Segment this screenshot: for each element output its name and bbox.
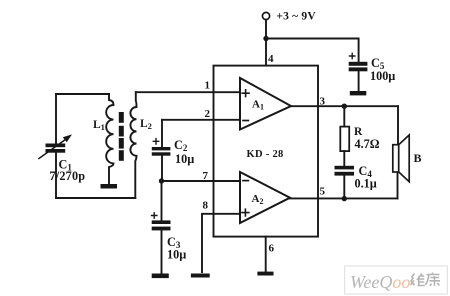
node C2 C3 pin7 junction bbox=[159, 178, 164, 183]
inductor L1 bbox=[93, 94, 114, 184]
svg-text:6: 6 bbox=[269, 243, 275, 255]
svg-text:2: 2 bbox=[205, 108, 211, 120]
svg-text:4.7Ω: 4.7Ω bbox=[355, 137, 380, 151]
node pin3 junction bbox=[342, 104, 347, 109]
supply terminal +3~9V bbox=[262, 11, 316, 23]
wire tuned loop left upper bbox=[55, 94, 57, 144]
svg-text:5: 5 bbox=[320, 186, 326, 198]
svg-text:L1: L1 bbox=[93, 119, 105, 132]
pin 1 wire bbox=[136, 80, 240, 93]
capacitor C4 0.1u bbox=[335, 164, 377, 199]
svg-text:4: 4 bbox=[268, 53, 274, 65]
IC U1 KD-28 bbox=[214, 66, 319, 237]
transformer core bbox=[119, 112, 124, 161]
inductor L2 bbox=[130, 92, 152, 198]
op-amp A2 bbox=[240, 172, 290, 223]
ground under pin 6 bbox=[257, 272, 273, 276]
wire tuned loop bottom bbox=[56, 197, 135, 199]
node supply junction bbox=[263, 36, 268, 41]
ground under pin 8 bbox=[191, 274, 210, 278]
ground under C5 bbox=[350, 91, 367, 95]
svg-text:7/270p: 7/270p bbox=[50, 169, 86, 183]
pin 3 wire bbox=[291, 96, 398, 145]
wire supply to C5 bbox=[266, 39, 359, 63]
svg-text:WeeQoo: WeeQoo bbox=[350, 272, 410, 292]
pin 6 wire bbox=[266, 237, 275, 271]
wire tuned loop top bbox=[56, 93, 109, 95]
svg-text:3: 3 bbox=[320, 96, 326, 108]
svg-text:0.1µ: 0.1µ bbox=[355, 176, 377, 190]
speaker B bbox=[393, 135, 422, 182]
wire terminal to pin 4 bbox=[265, 20, 267, 66]
wire tuned loop left lower bbox=[55, 152, 57, 198]
svg-text:KD - 28: KD - 28 bbox=[247, 149, 284, 160]
svg-text:1: 1 bbox=[205, 80, 211, 92]
capacitor C3 10u bbox=[152, 181, 187, 274]
pin 5 wire bbox=[290, 172, 398, 198]
ground under C3 bbox=[152, 274, 169, 279]
node pin5 junction bbox=[342, 196, 347, 201]
pin 2 wire bbox=[162, 108, 240, 120]
svg-text:+3 ~ 9V: +3 ~ 9V bbox=[276, 11, 316, 23]
svg-text:B: B bbox=[414, 151, 422, 165]
variable capacitor C1 7/270p bbox=[39, 134, 85, 182]
svg-text:10µ: 10µ bbox=[167, 248, 186, 262]
capacitor C2 10u bbox=[152, 120, 194, 181]
svg-text:L2: L2 bbox=[140, 118, 152, 131]
svg-text:8: 8 bbox=[203, 200, 209, 212]
svg-text:7: 7 bbox=[203, 170, 209, 182]
pin 8 wire bbox=[202, 200, 240, 273]
resistor R 4.7ohm bbox=[340, 106, 379, 166]
svg-text:10µ: 10µ bbox=[175, 152, 194, 166]
op-amp A1 bbox=[240, 78, 291, 130]
svg-text:100µ: 100µ bbox=[370, 69, 395, 83]
pin 7 wire bbox=[162, 170, 241, 182]
ground under L1 bbox=[101, 184, 118, 189]
capacitor C5 100u bbox=[349, 53, 396, 91]
